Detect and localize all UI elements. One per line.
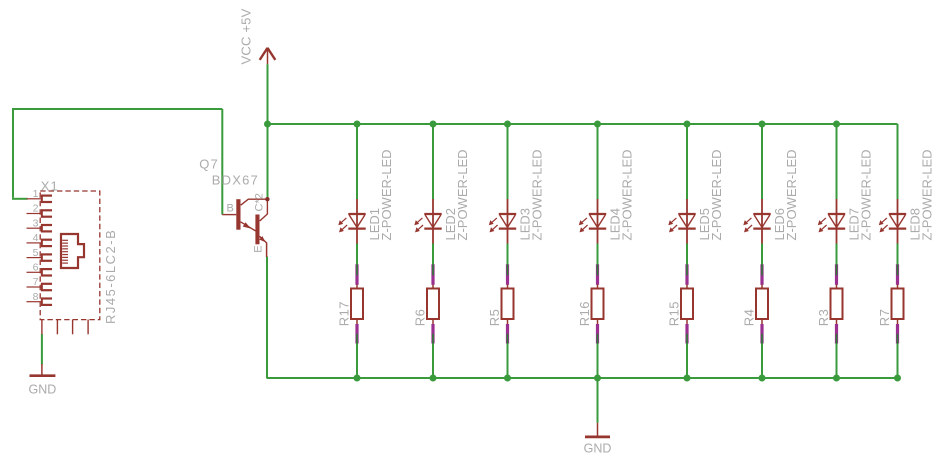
svg-text:1: 1 [33,188,39,200]
emission arrows LED1 [341,218,347,223]
pin 3 of X1 [27,217,53,232]
base bar Q2 [255,215,259,245]
body of R4 [756,289,768,320]
svg-text:RJ45-6LC2-B: RJ45-6LC2-B [103,229,118,324]
wire column 1 resistor to bottom rail [356,344,358,379]
top pin of R17 [355,264,358,285]
resistor R16 [577,264,604,343]
LED LED3 Z-POWER-LED [489,150,545,244]
wire column 6 resistor to bottom rail [761,344,763,379]
emission arrows LED4 [581,218,587,223]
top pin of R3 [835,264,838,285]
wire X1 shield to GND [41,334,43,365]
svg-text:Z-POWER-LED: Z-POWER-LED [919,150,934,241]
top pin of R7 [896,264,899,285]
supply symbol VCC +5V [239,8,276,64]
resistor R7 [877,264,904,343]
body of R3 [831,289,843,320]
emitter path Q2 with arrow [260,236,267,243]
wire column 2 top drop [432,124,434,199]
svg-text:R3: R3 [816,309,831,327]
emission arrows LED5 [671,218,677,223]
LED LED6 Z-POWER-LED [743,150,799,244]
wire column 3 top drop [507,124,509,199]
pin 2 of X1 [27,203,53,218]
wire column 4 resistor to bottom rail [597,344,599,379]
wire column 7 resistor to bottom rail [836,344,838,379]
wire column 8 LED to resistor [897,243,899,264]
LED LED2 Z-POWER-LED [414,150,470,244]
svg-text:3: 3 [33,217,39,229]
svg-text:VCC +5V: VCC +5V [239,8,254,64]
bottom pin of R15 [686,319,688,324]
svg-text:R6: R6 [412,309,427,327]
body of R17 [351,289,363,320]
svg-text:Z-POWER-LED: Z-POWER-LED [455,150,470,241]
resistor R6 [412,264,439,343]
pin 1 of X1 [27,188,53,203]
emission arrows LED8 [881,218,887,223]
wire column 3 LED to resistor [507,243,509,264]
top pin of R16 [596,264,599,285]
body of R7 [892,289,904,320]
pin 5 of X1 [27,247,53,262]
shield pins of X1 [42,320,88,335]
resistor R15 [666,264,693,343]
body of R6 [427,289,439,320]
junction dots top rail [264,121,840,128]
bottom pin of R6 [432,319,434,324]
svg-text:Z-POWER-LED: Z-POWER-LED [379,150,394,241]
wire VCC vertical to collector node [267,64,269,199]
svg-text:R5: R5 [487,309,502,327]
svg-text:C*2: C*2 [254,193,266,211]
wire emitter down to bottom rail [266,257,268,379]
svg-text:GND: GND [584,442,612,456]
wire column 7 top drop [836,124,838,199]
wire column 8 resistor to bottom rail [897,344,899,379]
wire base net from X1 pin1 [12,109,222,215]
wire column 4 top drop [597,124,599,199]
svg-text:GND: GND [29,382,57,396]
svg-text:4: 4 [33,232,39,244]
emission arrows LED3 [491,218,497,223]
svg-text:X1: X1 [41,178,59,193]
resistor R3 [816,264,843,343]
collector path Q2 [260,214,268,221]
svg-text:Q7: Q7 [199,156,219,171]
svg-text:B: B [227,202,234,214]
LED LED4 Z-POWER-LED [579,150,635,244]
wire column 5 top drop [686,124,688,199]
wire column 7 LED to resistor [836,243,838,264]
resistor R5 [487,264,514,343]
pin 4 of X1 [27,232,53,247]
connector X1 RJ45-6LC2-B [27,178,118,334]
svg-text:R15: R15 [666,301,681,326]
svg-text:Z-POWER-LED: Z-POWER-LED [709,150,724,241]
svg-text:BDX67: BDX67 [212,172,259,187]
LED LED1 Z-POWER-LED [338,150,394,244]
collector path Q1 [241,199,249,205]
svg-text:Z-POWER-LED: Z-POWER-LED [784,150,799,241]
wire bottom rail [267,377,898,379]
wire column 2 LED to resistor [432,243,434,264]
svg-text:R16: R16 [577,301,592,326]
bottom pin of R16 [597,319,599,324]
pin 6 of X1 [27,262,53,277]
wire column 8 top drop [897,124,899,199]
bottom pin of R3 [836,319,838,324]
emission arrows LED7 [820,218,826,223]
svg-text:R17: R17 [336,301,351,326]
ground GND left under X1 [29,364,57,396]
wire column 3 resistor to bottom rail [507,344,509,379]
base bar Q1 [236,199,240,230]
pin 7 of X1 [27,276,53,291]
bottom pin of R17 [356,319,358,324]
LED LED8 Z-POWER-LED [879,150,935,244]
body of R15 [681,289,693,320]
wire column 5 resistor to bottom rail [686,344,688,379]
wire GND stub center [597,378,599,423]
wire column 6 top drop [761,124,763,199]
wire column 6 LED to resistor [761,243,763,264]
svg-text:R4: R4 [741,309,756,327]
junction dots bottom rail [354,375,902,382]
svg-text:Z-POWER-LED: Z-POWER-LED [858,150,873,241]
resistor R4 [741,264,768,343]
svg-text:E: E [253,245,265,252]
wire column 1 LED to resistor [356,243,358,264]
bottom pin of R5 [507,319,509,324]
svg-text:R7: R7 [877,309,892,327]
wire column 4 LED to resistor [597,243,599,264]
top pin of R5 [506,264,509,285]
collector junction dot [265,197,269,201]
emitter path Q1 with arrow [241,222,256,231]
top pin of R15 [685,264,688,285]
svg-text:5: 5 [33,247,39,259]
top pin of R6 [431,264,434,285]
wire column 1 top drop [356,124,358,199]
svg-text:2: 2 [33,203,39,215]
RJ45 jack icon [61,234,84,268]
svg-text:6: 6 [33,262,39,274]
wire column 2 resistor to bottom rail [432,344,434,379]
svg-text:Z-POWER-LED: Z-POWER-LED [619,150,634,241]
svg-text:7: 7 [33,276,39,288]
LED LED5 Z-POWER-LED [668,150,724,244]
base pin wire [222,214,236,216]
body of R5 [502,289,514,320]
bottom pin of R7 [897,319,899,324]
top pin of R4 [760,264,763,285]
LED LED7 Z-POWER-LED [818,150,874,244]
svg-text:Z-POWER-LED: Z-POWER-LED [529,150,544,241]
ground GND center [584,423,612,456]
body of R16 [592,289,604,320]
svg-text:8: 8 [33,291,39,303]
wire top +5V rail [267,123,898,125]
transistor Q7 BDX67 darlington [199,156,269,257]
emission arrows LED2 [417,218,423,223]
wire column 5 LED to resistor [686,243,688,264]
emission arrows LED6 [746,218,752,223]
resistor R17 [336,264,363,343]
bottom pin of R4 [761,319,763,324]
pin 8 of X1 [27,291,53,306]
